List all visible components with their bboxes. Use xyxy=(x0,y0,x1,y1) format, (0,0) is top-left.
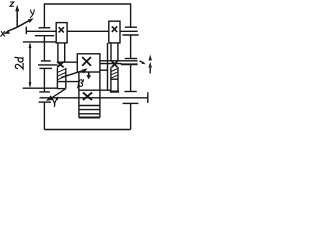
lower column right edge xyxy=(99,72,101,118)
label z xyxy=(10,2,14,6)
bearing mid-left xyxy=(41,60,51,62)
gyromotor box 2 xyxy=(109,21,120,43)
label x xyxy=(1,32,4,37)
gyromotor box 1 xyxy=(56,23,67,43)
shaft 1 xyxy=(26,30,56,32)
vertical link below box2 xyxy=(107,43,109,90)
shaft 1 end tick xyxy=(25,27,27,35)
axis x xyxy=(7,27,17,31)
middle box x mark xyxy=(82,57,91,66)
box1 x mark xyxy=(59,27,64,32)
bearing lower-left xyxy=(39,91,50,93)
diag arrow beta xyxy=(61,70,84,77)
axis y xyxy=(17,20,30,27)
shaft 3 end tick xyxy=(147,92,149,103)
bearing lower-right xyxy=(124,91,136,93)
lower box x mark xyxy=(83,93,92,101)
gear x1 xyxy=(57,62,64,68)
right hatched column xyxy=(110,67,112,91)
label gamma xyxy=(52,98,57,106)
axis z xyxy=(16,10,18,27)
dimension 2d xyxy=(29,44,31,87)
kinematic scheme of two-gyro frame xyxy=(0,0,155,136)
frame left wall xyxy=(43,3,45,27)
damper stripes xyxy=(79,105,100,107)
arrowhead y axis xyxy=(28,18,34,23)
frame top rail xyxy=(44,3,130,5)
lower column left edge xyxy=(78,72,80,118)
thick down arrow xyxy=(88,72,90,76)
inner gimbal middle box xyxy=(77,54,100,72)
coordinate axes xyxy=(7,10,30,31)
frame right wall xyxy=(130,3,132,27)
box1 legs xyxy=(57,43,59,62)
arrowhead z axis xyxy=(15,5,19,11)
bearing upper-right xyxy=(125,26,137,28)
diag arrow gamma xyxy=(53,89,66,97)
box2 legs xyxy=(110,43,112,61)
bearing mid-right xyxy=(125,58,137,60)
label beta xyxy=(78,80,83,88)
left hatched column xyxy=(56,68,58,89)
label y xyxy=(30,10,32,14)
middle shaft left xyxy=(38,64,58,66)
arrowhead x axis xyxy=(3,30,10,34)
label 2d xyxy=(15,57,23,69)
gear x2 xyxy=(112,61,118,67)
middle shaft right lines xyxy=(100,60,138,62)
lower-left line xyxy=(23,87,58,89)
lower column top line xyxy=(79,89,111,91)
double arrowhead rotation vector xyxy=(149,68,151,73)
platform line xyxy=(23,41,56,43)
bearing upper-left xyxy=(39,27,51,29)
stub middle box to link xyxy=(100,69,108,71)
box2 x mark xyxy=(112,26,117,32)
shaft 3 xyxy=(40,97,148,99)
frame bottom rail xyxy=(44,129,130,131)
small rate arrow right xyxy=(140,61,143,63)
